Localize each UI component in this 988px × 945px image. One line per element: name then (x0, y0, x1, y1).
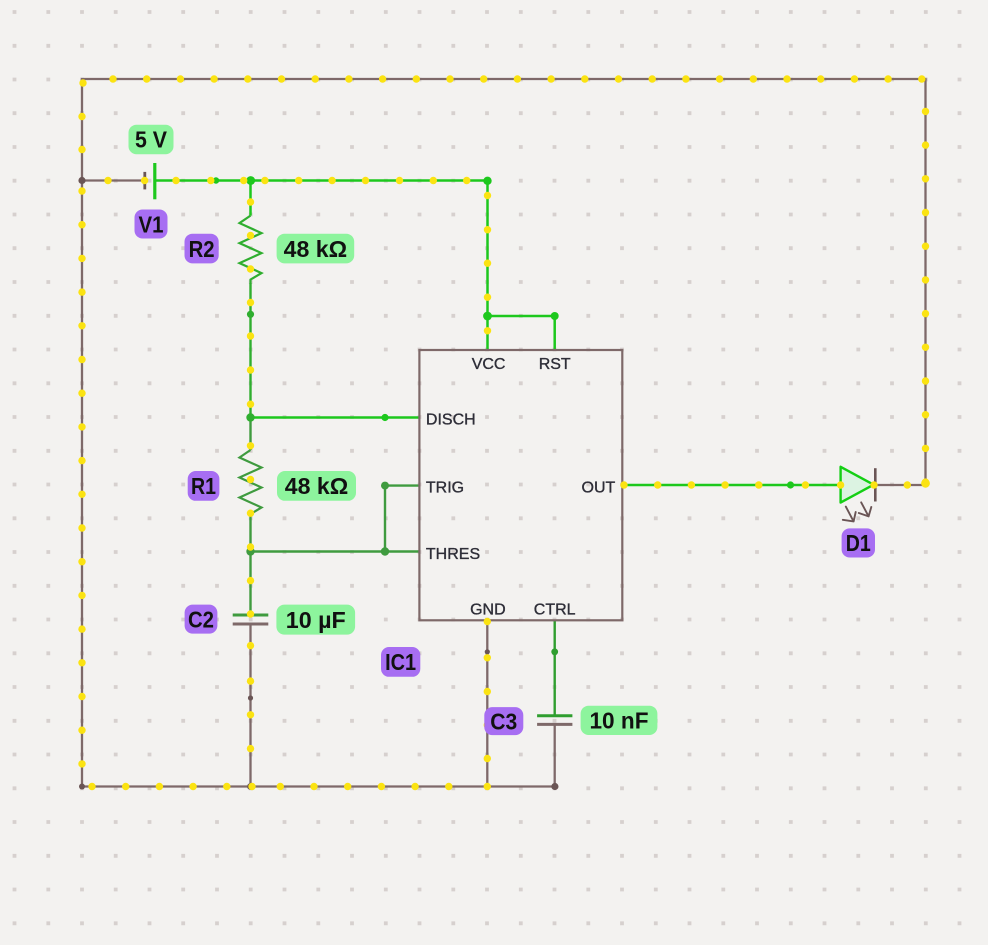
pin label GND (470, 601, 506, 618)
value label 10 µF (276, 605, 355, 635)
wire joint on OUT wire (787, 481, 794, 488)
wire: V+ supply rail (battery to VCC) (156, 179, 488, 182)
wire: top border (ground net) (81, 78, 927, 80)
node: battery negative junction on left border (78, 177, 85, 184)
svg-text:10 nF: 10 nF (590, 708, 649, 734)
resistor R1 (48 kΩ) (240, 450, 262, 518)
resistor R2 (48 kΩ) (240, 216, 262, 284)
name label R1 (188, 471, 220, 501)
wire: C3 bottom to ground (554, 724, 556, 786)
current flow dots (yellow) (78, 75, 930, 790)
wire joint on R2-DISCH wire (247, 311, 254, 318)
value label 5 V (129, 125, 174, 155)
name label R2 (185, 234, 219, 264)
capacitor C2 (10 µF) plates (233, 615, 269, 624)
capacitor C3 (10 nF) plates (537, 716, 572, 725)
wire: OUT pin to LED anode (622, 484, 840, 487)
wire: VCC drop (486, 179, 489, 350)
svg-text:C3: C3 (490, 708, 517, 734)
corner: bottom-left of ground loop (79, 784, 85, 790)
node: VCC/RST junction (483, 312, 492, 321)
name label C2 (185, 605, 218, 634)
pin label VCC (472, 356, 506, 373)
node: C3 branch end at bottom border (551, 783, 558, 790)
svg-text:48 kΩ: 48 kΩ (285, 473, 349, 499)
wire joint on C2 ground branch (248, 695, 253, 700)
pin label CTRL (534, 601, 576, 618)
name label C3 (484, 707, 523, 735)
corner: supply rail to VCC drop (483, 177, 491, 185)
wire: battery negative stub (82, 179, 144, 181)
node: TRIG corner (381, 482, 389, 490)
wire: supply to R2 top lead (249, 181, 252, 216)
pin label RST (539, 356, 571, 373)
svg-text:C2: C2 (188, 606, 214, 632)
wire: R2 bottom lead to DISCH node (249, 283, 251, 418)
pin label DISCH (426, 412, 476, 429)
LED D1 (841, 467, 876, 503)
svg-text:R2: R2 (189, 236, 215, 262)
value label 48 kΩ (R2) (277, 234, 355, 264)
name label D1 (842, 528, 875, 557)
junction: C2 branch at bottom border (247, 783, 254, 790)
pin label TRIG (426, 480, 464, 497)
node: DISCH junction (246, 413, 254, 421)
wire: right border (ground net) (924, 79, 926, 485)
wire: RST link horizontal (488, 315, 555, 318)
wire: C2 bottom to ground (249, 624, 251, 787)
wire: left border (ground net) (81, 79, 83, 787)
svg-text:THRES: THRES (426, 546, 480, 563)
svg-text:D1: D1 (846, 530, 871, 556)
LED D1 light arrows (843, 502, 872, 521)
svg-text:48 kΩ: 48 kΩ (284, 236, 348, 262)
wire: TRIG-THRES vertical link (384, 486, 386, 552)
wire joint on supply rail (213, 177, 219, 183)
value label 48 kΩ (R1) (277, 471, 356, 501)
svg-text:IC1: IC1 (385, 649, 416, 675)
svg-text:CTRL: CTRL (534, 601, 576, 618)
value label 10 nF (581, 706, 658, 735)
wire: LED cathode to right border (875, 484, 926, 486)
voltage source V1 (battery) (145, 163, 155, 199)
svg-text:5 V: 5 V (135, 127, 167, 153)
svg-text:GND: GND (470, 601, 506, 618)
wire: THRES pin horizontal (251, 550, 420, 552)
node: THRES/R1/C2 junction (246, 547, 254, 555)
name label IC1 (381, 647, 420, 677)
node: supply/R2 junction (246, 176, 255, 185)
svg-text:V1: V1 (139, 211, 164, 237)
wire joint on CTRL wire (551, 648, 558, 655)
wire: bottom border (ground net) (81, 785, 555, 787)
wire: GND pin to ground (486, 620, 488, 787)
wire joint: RST corner (551, 312, 559, 320)
wire joint on DISCH stub (381, 414, 388, 421)
svg-text:OUT: OUT (582, 480, 616, 497)
svg-text:R1: R1 (191, 473, 216, 499)
svg-text:VCC: VCC (472, 356, 506, 373)
wire: TRIG pin stub (385, 484, 419, 486)
svg-text:TRIG: TRIG (426, 480, 464, 497)
name label V1 (135, 210, 168, 239)
wire: DISCH pin horizontal (251, 416, 420, 419)
svg-text:10 µF: 10 µF (286, 607, 346, 633)
svg-text:DISCH: DISCH (426, 412, 476, 429)
wire: THRES node down to C2 top (249, 552, 251, 616)
node: THRES/TRIG junction (381, 547, 389, 555)
pin label OUT (582, 480, 616, 497)
wire: CTRL pin to C3 top (554, 620, 556, 716)
svg-text:RST: RST (539, 356, 571, 373)
wire: R1 top lead from DISCH node (249, 418, 251, 451)
wire: R1 bottom lead to THRES node (249, 518, 251, 552)
wire: RST drop (553, 316, 556, 350)
pin label THRES (426, 546, 480, 563)
wire joint on GND branch (485, 649, 490, 654)
op IC1: 555 timer body (419, 350, 622, 620)
